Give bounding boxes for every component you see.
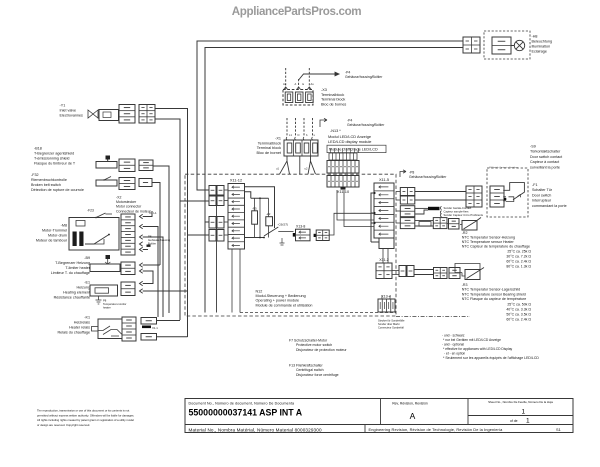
svg-text:Document No., Número de docume: Document No., Número de document, Número…: [189, 401, 295, 405]
connector R2 a: [433, 218, 447, 229]
svg-text:30°C ca. 7.2k Ω: 30°C ca. 7.2k Ω: [506, 255, 531, 259]
svg-text:A: A: [410, 411, 416, 421]
svg-text:Motorstecker: Motorstecker: [116, 200, 137, 204]
title block divider rev-sheet: [467, 399, 469, 425]
svg-text:Limiteur T. du chauffage: Limiteur T. du chauffage: [51, 271, 90, 275]
svg-text:Electrovannes: Electrovannes: [60, 114, 84, 118]
connector pair 1a: [209, 186, 216, 196]
connector pair 1b: [209, 196, 216, 206]
wire K1 b: [157, 336, 188, 338]
svg-text:25°C ca. 50k Ω: 25°C ca. 50k Ω: [507, 303, 531, 307]
svg-text:Module d'affichage LED/LCD: Module d'affichage LED/LCD: [329, 148, 378, 152]
svg-text:-B18: -B18: [34, 147, 42, 151]
svg-text:Heizrelais: Heizrelais: [74, 321, 90, 325]
connector door strip: [466, 186, 482, 207]
motor switch: [85, 235, 109, 245]
connector X2 strip: [121, 214, 135, 255]
wire R2 link: [447, 223, 449, 225]
svg-text:Moteur de tambour: Moteur de tambour: [36, 239, 68, 243]
svg-text:Terminal block: Terminal block: [321, 98, 345, 102]
svg-text:Door switch: Door switch: [532, 193, 551, 197]
connector pair 2b: [209, 230, 216, 242]
svg-text:Sonder über Markt: Sonder über Markt: [378, 322, 400, 326]
switch F32 symbol: [104, 177, 111, 181]
connector B9: [121, 262, 135, 275]
svg-text:-X1: -X1: [275, 137, 281, 141]
svg-text:commandant la porte: commandant la porte: [532, 204, 567, 208]
svg-text:60°C ca. 2.4k Ω: 60°C ca. 2.4k Ω: [506, 260, 531, 264]
svg-text:Disjoncteur de protection mote: Disjoncteur de protection moteur: [296, 348, 347, 352]
connector bundle box g2: [400, 206, 415, 217]
svg-text:55000000037141 ASP INT A: 55000000037141 ASP INT A: [189, 408, 303, 418]
valve Y1 body: [99, 110, 119, 121]
connector X13-8 b: [316, 230, 329, 241]
svg-text:F7 Schutzschalter-Motor: F7 Schutzschalter-Motor: [289, 339, 328, 343]
connector K1 strip: [122, 317, 136, 341]
svg-text:1: 1: [526, 418, 530, 425]
title block row line: [185, 424, 573, 426]
wire E1: [143, 290, 188, 292]
chevron E1 1: [140, 281, 143, 285]
svg-text:- et - en option: - et - en option: [444, 352, 465, 356]
svg-text:Terminalblock: Terminalblock: [321, 93, 344, 97]
svg-text:Centrifugal switch: Centrifugal switch: [296, 368, 324, 372]
svg-text:Gehäuse/housing/Boîtier: Gehäuse/housing/Boîtier: [409, 175, 447, 179]
svg-text:-X3: -X3: [321, 88, 327, 92]
stub module to door pair: [396, 191, 400, 193]
connector door inner: [490, 186, 504, 207]
title block divider material-engineering: [364, 425, 366, 433]
wire pair R3 to chain: [414, 269, 434, 271]
valve Y1 symbol: [88, 110, 98, 118]
box around optional display line: [327, 145, 386, 152]
svg-text:Engineering Revision, Révision: Engineering Revision, Révision de Techno…: [369, 427, 504, 432]
relay K1 contacts: [98, 326, 122, 336]
svg-text:Interrupteur: Interrupteur: [532, 199, 552, 203]
relay K1 coil stub: [92, 327, 99, 332]
lamp housing dashed box: [484, 31, 530, 59]
svg-text:Eclairage: Eclairage: [532, 50, 547, 54]
connector X11-10 pin row: [329, 153, 357, 160]
sensor B9 symbol: [106, 255, 111, 259]
ground E1: [96, 296, 102, 304]
plug chevrons at X3 pins: [284, 87, 288, 90]
svg-text:Détection de rupture de courro: Détection de rupture de courroie: [31, 188, 84, 192]
wire X11-10 drop b: [344, 190, 374, 227]
svg-text:permitted without express wri: permitted without express written author…: [37, 413, 134, 417]
svg-text:N12: N12: [256, 290, 263, 294]
sensor B18 symbol: [106, 156, 111, 160]
chevron X2 2: [140, 224, 143, 228]
svg-text:Sonder Geräte-Contact: Sonder Geräte-Contact: [444, 206, 472, 210]
black mark X13-8 b: [314, 234, 317, 237]
svg-text:Terminalblock: Terminalblock: [258, 141, 281, 145]
wires X3 to X1 pins: [286, 118, 288, 137]
svg-text:-Y1: -Y1: [60, 104, 66, 108]
wire module internal down 2: [239, 249, 241, 313]
wire X11-5 internal bus: [371, 193, 379, 242]
svg-text:NTC Temperature sensor Heater: NTC Temperature sensor Heater: [462, 240, 515, 244]
svg-text:60°C ca. 2.4k Ω: 60°C ca. 2.4k Ω: [506, 318, 531, 322]
connector lamp inner: [492, 37, 511, 54]
wire door 2: [415, 199, 466, 201]
body B9: [90, 264, 120, 272]
svg-text:-B9: -B9: [84, 256, 90, 260]
stub pair1a to X11-12: [224, 189, 228, 191]
wire door 1: [415, 191, 466, 193]
svg-text:Illumination: Illumination: [532, 45, 551, 49]
chevron X2 4: [140, 242, 143, 246]
svg-text:Motor connector: Motor connector: [116, 205, 142, 209]
connector R2 b: [449, 219, 460, 230]
stub pair2a to X11-12: [224, 221, 228, 223]
svg-text:- und - schwarz: - und - schwarz: [442, 334, 465, 338]
svg-text:-H8: -H8: [532, 35, 538, 39]
svg-text:Disjoncteur force centrifuge: Disjoncteur force centrifuge: [296, 373, 339, 377]
svg-text:Heizung: Heizung: [76, 286, 90, 290]
connector X11-5 strip: [374, 183, 394, 238]
svg-text:X11-10: X11-10: [337, 189, 350, 194]
chevron E1 2: [140, 289, 143, 293]
svg-text:40°C ca. 3.3k Ω: 40°C ca. 3.3k Ω: [506, 308, 531, 312]
svg-text:X13-8: X13-8: [296, 225, 305, 229]
svg-text:-C6(S7): -C6(S7): [278, 223, 289, 227]
switch internal S7: [264, 227, 278, 236]
connector K1 right b: [141, 334, 157, 341]
svg-text:50°C ca. 3.5k Ω: 50°C ca. 3.5k Ω: [506, 313, 531, 317]
svg-text:Protective motor switch: Protective motor switch: [296, 343, 332, 347]
motor winding 1: [73, 232, 77, 247]
svg-text:heater: heater: [103, 305, 111, 309]
arrow to P4 housing top: [299, 74, 339, 80]
svg-text:LED/LCD display module: LED/LCD display module: [328, 139, 371, 144]
wire g3 b: [415, 225, 434, 227]
svg-text:-R2: -R2: [462, 231, 468, 235]
svg-text:Au: Au: [311, 82, 315, 86]
svg-text:Beleuchtung: Beleuchtung: [532, 40, 553, 44]
svg-text:T-limiter heater: T-limiter heater: [65, 266, 90, 270]
hooks at X1 pin tops: [285, 137, 288, 140]
svg-text:All rights including rights cr: All rights including rights created by p…: [37, 418, 134, 422]
chevron X2 1: [140, 214, 143, 218]
svg-text:S1: S1: [556, 427, 561, 432]
sensor R2 NTC: [462, 221, 477, 231]
junction blob motor: [147, 245, 151, 247]
svg-text:Schalter Tür: Schalter Tür: [532, 188, 553, 192]
svg-text:Bloc de bornet: Bloc de bornet: [257, 151, 282, 155]
svg-text:S9 Switch Contact u Switches: S9 Switch Contact u Switches: [489, 166, 519, 169]
connector F32 b: [139, 179, 152, 187]
chevron X2 5: [140, 247, 143, 251]
wires X13-4 up: [381, 296, 383, 300]
wire switch to X13-8: [278, 231, 293, 233]
connector box g3: [400, 218, 415, 229]
title block divider doc-rev: [380, 399, 382, 425]
svg-text:P8: P8: [103, 299, 107, 303]
svg-text:Material No., Nombra Matérial,: Material No., Nombra Matérial, Número Ma…: [189, 427, 322, 432]
svg-text:Motor-Trommel: Motor-Trommel: [42, 229, 67, 233]
svg-text:Riemenbruchkontrolle: Riemenbruchkontrolle: [31, 178, 67, 182]
connector X11-10 row 1: [327, 161, 359, 174]
svg-text:NTC Temperatur Sensor-Lagersch: NTC Temperatur Sensor-Lagerschild: [462, 288, 520, 292]
svg-text:-F32: -F32: [31, 173, 39, 177]
svg-text:* Seulement sur les appareils: * Seulement sur les appareils équipés de…: [443, 356, 539, 360]
black wire color mark: [428, 207, 440, 210]
wire B9 2: [143, 271, 153, 284]
wire to lamp symbol: [511, 45, 514, 47]
connector E1: [121, 282, 135, 296]
body E1: [90, 285, 118, 296]
connector X11-2: [376, 263, 392, 279]
svg-text:Module de commande et utilisat: Module de commande et utilisation: [256, 303, 313, 307]
dash line below module: [240, 312, 396, 314]
door switch F1 mech: [503, 183, 524, 200]
svg-text:-K1: -K1: [84, 316, 90, 320]
pins above terminal X3: [285, 68, 287, 90]
svg-text:Gehäuse/housing/Boîtier: Gehäuse/housing/Boîtier: [347, 123, 385, 127]
svg-text:Flasque du timbreur de T: Flasque du timbreur de T: [34, 162, 76, 166]
switch F23: [96, 213, 106, 218]
connector B18 a: [119, 159, 135, 172]
connector Y1 a: [119, 105, 135, 124]
svg-text:Heater relais: Heater relais: [69, 326, 90, 330]
connector X lamp: [463, 37, 480, 53]
svg-text:or design are reserved. Copyri: or design are reserved. Copyright reserv…: [37, 423, 90, 427]
ferrite on wire g3: [419, 222, 431, 227]
stub X11-2 to pair R3: [392, 270, 399, 272]
stub module to g3: [396, 222, 400, 224]
stub module to g2: [396, 210, 400, 212]
ground internal: [280, 238, 285, 245]
svg-text:Sonder Capteur C4 to Proficien: Sonder Capteur C4 to Proficients: [444, 213, 484, 217]
wire Y1 lower: [155, 119, 180, 320]
svg-text:* effective for appliances wit: * effective for appliances with LED/LCD …: [443, 347, 513, 351]
svg-text:Capteur à contact: Capteur à contact: [530, 160, 559, 164]
junction dots X11-5: [373, 192, 375, 194]
svg-text:Connecteur Sonderfall: Connecteur Sonderfall: [378, 326, 404, 330]
wire internal node vertical: [259, 198, 261, 237]
svg-text:Relais du chauffage: Relais du chauffage: [57, 331, 90, 335]
svg-text:Operating + power module: Operating + power module: [256, 299, 300, 303]
svg-text:X13-4: X13-4: [381, 295, 391, 299]
wire X11-12 row A: [245, 187, 275, 228]
svg-text:Terminal block: Terminal block: [257, 146, 281, 150]
connector X11-5 tail cell: [379, 238, 394, 249]
svg-text:-X2: -X2: [116, 196, 122, 200]
terminal block X3: [283, 90, 313, 106]
wire g2 b: [415, 210, 428, 214]
svg-text:-S9: -S9: [530, 145, 536, 149]
title block sheet midline: [468, 415, 573, 417]
svg-text:Inlet valve: Inlet valve: [60, 109, 77, 113]
wire g3 a: [415, 219, 434, 221]
resistor E1: [95, 288, 109, 293]
connector Y1 b: [139, 105, 155, 124]
wire pair1b feed: [180, 200, 209, 202]
motor thermal protector: [76, 221, 85, 227]
svg-text:Door switch contact: Door switch contact: [530, 155, 562, 159]
brace marks: [440, 206, 441, 209]
wire internal lower bus: [245, 237, 265, 239]
svg-text:-F23: -F23: [87, 209, 94, 213]
title block outer frame: [185, 399, 573, 433]
svg-text:Connecteur de moteur: Connecteur de moteur: [116, 209, 152, 213]
body B18: [96, 162, 117, 169]
wire Y1 upper: [155, 109, 188, 338]
wire F32: [152, 183, 160, 266]
svg-text:- and - optional: - and - optional: [442, 343, 464, 347]
svg-text:-E1: -E1: [84, 281, 90, 285]
svg-text:F13 Fliehkraftschalter: F13 Fliehkraftschalter: [289, 364, 323, 368]
chevron B9 2: [140, 269, 143, 273]
svg-text:Modul-Steuerung + Bedienung: Modul-Steuerung + Bedienung: [256, 294, 306, 298]
connector R3 a: [434, 268, 448, 279]
svg-text:Heating element: Heating element: [63, 291, 90, 295]
wire B18: [153, 166, 169, 313]
svg-text:Bloc de bornes: Bloc de bornes: [321, 102, 346, 106]
arrow to P8 housing right: [400, 170, 406, 177]
wire motor 3: [143, 237, 163, 317]
chevron B9 1: [140, 263, 143, 267]
svg-text:1: 1: [522, 409, 526, 416]
svg-text:-F1: -F1: [532, 183, 538, 187]
svg-text:NTC Temperature sensor Bearing: NTC Temperature sensor Bearing shield: [462, 292, 526, 296]
wire R3 loop: [455, 264, 480, 277]
wire K1 a: [157, 320, 181, 322]
svg-text:Sheet No., Nombre De Feuille,: Sheet No., Nombre De Feuille, Número De …: [488, 400, 553, 404]
chevron X2 3: [140, 235, 143, 239]
body F32: [96, 180, 117, 186]
svg-text:The reproduction, transmission: The reproduction, transmission or use of…: [37, 409, 130, 413]
wire X1 down right Y splice: [308, 156, 316, 174]
wire motor 2: [143, 227, 158, 318]
svg-text:X1.1: X1.1: [152, 326, 158, 330]
connector B18 b: [139, 160, 153, 171]
svg-text:X11-12: X11-12: [230, 178, 242, 183]
wire X1 down middle: [299, 156, 301, 174]
wire top N to lamp: [205, 48, 463, 313]
wire B9 1: [143, 264, 160, 266]
connector X11-12 strip: [228, 184, 245, 250]
svg-text:-P4: -P4: [345, 71, 350, 75]
connector F32 a: [119, 178, 135, 190]
svg-text:AppliancePartsPros.com: AppliancePartsPros.com: [232, 5, 362, 18]
svg-text:N: N: [298, 133, 300, 137]
wire motor 1: [143, 211, 152, 217]
svg-text:-R3: -R3: [462, 283, 468, 287]
door dashed box S9: [487, 168, 528, 217]
dash-dot line right of module: [396, 316, 470, 318]
black wire mark K1: [142, 326, 151, 329]
connector pair 2a: [209, 217, 216, 229]
black mark X13-8 a: [293, 233, 296, 237]
motor winding 2: [79, 232, 83, 247]
junction blob X11-10: [341, 187, 346, 190]
svg-text:-M8: -M8: [61, 224, 67, 228]
svg-text:T-Begrenzer Heizung: T-Begrenzer Heizung: [55, 261, 90, 265]
connector door pair a: [400, 188, 415, 196]
relay K1 box: [98, 319, 122, 339]
svg-text:Capteur sample-fiers: Capteur sample-fiers: [444, 210, 470, 214]
svg-text:X11-2: X11-2: [379, 258, 389, 262]
wire internal node bus: [251, 197, 269, 199]
svg-text:-P4: -P4: [347, 119, 352, 123]
svg-text:80°C ca. 1.3k Ω: 80°C ca. 1.3k Ω: [506, 265, 531, 269]
connector K1 right a: [141, 318, 157, 325]
svg-text:Türkontaktschalter: Türkontaktschalter: [530, 150, 561, 154]
wire module internal down 1: [231, 249, 233, 313]
svg-text:-N13 *: -N13 *: [330, 129, 341, 133]
wires X11-10 down: [330, 148, 332, 153]
connector X13-8 a: [296, 229, 311, 241]
stub N to pair2a: [205, 221, 209, 223]
wire top L to lamp: [197, 41, 463, 190]
svg-text:T-émissionning shield: T-émissionning shield: [34, 157, 69, 161]
svg-text:of de: of de: [510, 419, 518, 423]
svg-text:25°C ca. 25k Ω: 25°C ca. 25k Ω: [507, 250, 531, 254]
wire vertical through pairs: [216, 206, 218, 313]
svg-text:NTC Temperatur Sensor-Heizung: NTC Temperatur Sensor-Heizung: [462, 235, 515, 239]
svg-text:Gehäuse/housing/Boîtier: Gehäuse/housing/Boîtier: [345, 75, 383, 79]
connector door pair b: [400, 196, 415, 204]
svg-text:Temperatur-monitor: Temperatur-monitor: [103, 302, 127, 306]
svg-text:Résistance chauffante: Résistance chauffante: [54, 296, 90, 300]
svg-text:A: A: [295, 82, 297, 86]
stub pair1b to X11-12: [224, 200, 228, 202]
motor M8 box: [69, 218, 119, 251]
wire pair2b feed: [188, 234, 210, 236]
connector pair R3: [399, 266, 406, 277]
svg-text:-P8: -P8: [409, 171, 414, 175]
wire X1 down left Y splice: [280, 156, 290, 174]
svg-text:surveillant la porte: surveillant la porte: [530, 165, 560, 169]
arrow to P4 housing N13: [320, 118, 327, 127]
connector X11-10 row 2: [327, 176, 359, 188]
connector X13-4: [378, 299, 395, 312]
svg-text:NTC Capteur de température du: NTC Capteur de température du chauffage: [462, 245, 530, 249]
svg-text:Rev, Révision, Revisión: Rev, Révision, Revisión: [392, 401, 428, 405]
module N12 boundary: [185, 174, 396, 316]
svg-text:Broken belt switch: Broken belt switch: [31, 183, 61, 187]
sensor R3 NTC: [465, 270, 480, 280]
svg-text:T-Begrenzer agentshield: T-Begrenzer agentshield: [34, 152, 74, 156]
lamp H8 symbol: [514, 40, 524, 50]
svg-text:NTC Flasque du capteur de temp: NTC Flasque du capteur de température: [462, 297, 527, 301]
svg-text:X1 L1: X1 L1: [149, 211, 157, 215]
svg-text:* nur bei Geräten mit LED/LCD: * nur bei Geräten mit LED/LCD Anzeige: [443, 338, 501, 342]
wire X11-12 row B: [245, 192, 251, 199]
stub pair2b to X11-12: [224, 234, 228, 236]
terminal block X1: [284, 140, 318, 156]
wire motor 4: [143, 249, 148, 251]
wire X13-8 up loop: [329, 213, 374, 235]
wire g2 a: [415, 207, 428, 209]
svg-text:Stecker für Sonderfälle: Stecker für Sonderfälle: [378, 319, 405, 323]
svg-text:Motor-drum: Motor-drum: [48, 234, 67, 238]
svg-text:X11-5: X11-5: [379, 177, 389, 182]
connector R3 b: [449, 268, 460, 279]
svg-text:Au: Au: [283, 82, 287, 86]
wire X11-5 to X11-2: [382, 249, 384, 264]
wire X11-10 drop a: [337, 190, 374, 220]
